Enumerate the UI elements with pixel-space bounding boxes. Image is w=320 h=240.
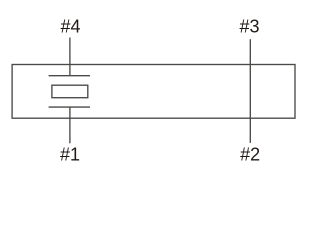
wire pin 3 to pin 2 (feedthrough) (249, 39, 251, 143)
crystal top plate (49, 75, 90, 77)
crystal element body Y1 (52, 85, 88, 98)
svg-text:#4: #4 (60, 16, 80, 36)
svg-text:#1: #1 (60, 144, 80, 164)
wire crystal bottom plate to pin 1 (69, 107, 71, 143)
wire pin 4 to crystal top plate (69, 38, 71, 76)
svg-text:#3: #3 (239, 16, 259, 36)
crystal bottom plate (49, 106, 90, 108)
component outline (crystal package body) (12, 65, 295, 119)
svg-text:#2: #2 (240, 144, 260, 164)
